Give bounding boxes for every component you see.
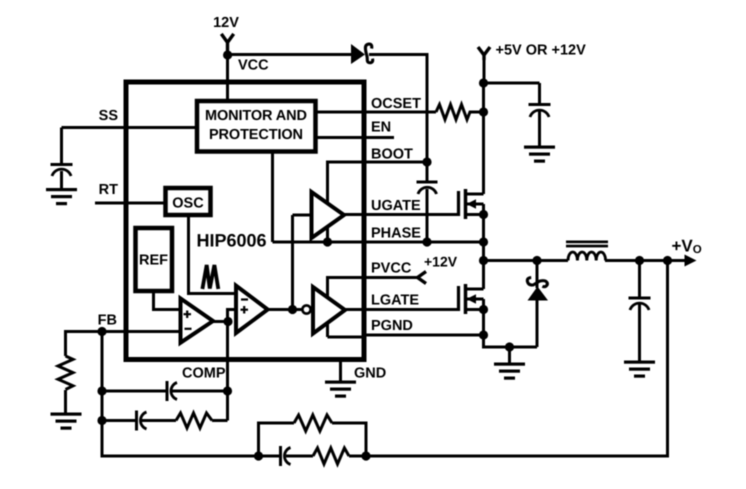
ground output cap xyxy=(624,361,655,378)
wire +5V input stem xyxy=(483,55,486,83)
wire feedback bottom rail left xyxy=(259,455,282,458)
wire 12V node to diode anode xyxy=(227,53,352,56)
transistor Q1 upper MOSFET xyxy=(459,189,484,219)
wire FB to bias resistor xyxy=(64,332,67,357)
transistor Q2 lower MOSFET xyxy=(459,284,484,314)
resistor feedback parallel xyxy=(294,415,332,431)
sawtooth oscillator waveform icon xyxy=(202,265,218,289)
resistor ROCSET xyxy=(436,105,481,120)
svg-text:RT: RT xyxy=(99,182,118,198)
wire FB node vertical xyxy=(101,332,104,457)
wire output feedback drop xyxy=(366,261,668,457)
wire SS pin xyxy=(62,126,198,129)
wire bootstrap cap to PHASE wire xyxy=(426,189,429,242)
capacitor compensation C2 xyxy=(135,411,147,431)
wire LGATE pin to lower FET gate xyxy=(344,308,459,311)
wire upper FET source to switch rail xyxy=(482,215,485,290)
node error amp output xyxy=(223,317,232,326)
svg-text:COMP: COMP xyxy=(182,366,226,382)
wire PVCC to lower driver supply xyxy=(328,278,365,338)
wire bias resistor to ground xyxy=(64,390,67,414)
capacitor output xyxy=(629,297,651,311)
IC U1 HIP6006 outline xyxy=(126,82,364,360)
node switch rail xyxy=(479,256,488,265)
wire decoupling cap to ground xyxy=(538,111,541,147)
capacitor feedback series xyxy=(279,446,291,466)
wire driver logic node vertical xyxy=(291,215,294,310)
node +5V junction xyxy=(479,78,488,87)
wire VCC internal to monitor box xyxy=(226,82,229,101)
svg-text:PROTECTION: PROTECTION xyxy=(209,127,303,143)
arrow output Vo xyxy=(685,255,697,267)
wire PHASE pin to switch node xyxy=(273,241,484,244)
wire feedback parallel branch right xyxy=(332,423,366,456)
svg-text:+12V: +12V xyxy=(424,254,458,270)
node ground rail xyxy=(505,342,514,351)
wire UGATE pin to upper FET gate xyxy=(344,213,459,216)
node 12V junction xyxy=(223,50,232,59)
svg-text:PVCC: PVCC xyxy=(371,261,412,277)
node PWM output xyxy=(288,305,297,314)
wire +5V node down to upper FET drain xyxy=(482,83,485,194)
node FB xyxy=(97,327,106,336)
wire PGND pin to lower FET source xyxy=(367,334,484,337)
svg-text:MONITOR AND: MONITOR AND xyxy=(205,108,307,124)
wire monitor box down to phase sense xyxy=(271,152,274,243)
capacitor SS softstart xyxy=(51,163,73,176)
op-amp upper gate driver xyxy=(312,192,345,238)
wire BOOT to upper driver supply xyxy=(328,162,365,242)
wire VCC 12V node to IC top xyxy=(226,55,229,101)
node feedback network left xyxy=(254,451,263,460)
ground GND pin stem xyxy=(339,360,342,383)
capacitor bootstrap xyxy=(417,181,438,195)
ground GND pin symbol xyxy=(325,381,356,398)
inductor L output xyxy=(566,241,608,261)
op-amp lower gate driver xyxy=(313,287,345,334)
svg-text:PGND: PGND xyxy=(371,318,413,334)
wire compensation RC cap to resistor xyxy=(141,419,176,422)
ground +5V cap xyxy=(524,146,555,163)
wire bottom rail to FB divider xyxy=(102,332,259,457)
resistor compensation RC xyxy=(176,413,212,428)
svg-text:VCC: VCC xyxy=(238,58,269,74)
svg-text:GND: GND xyxy=(354,366,386,382)
wire inductor to output arrow xyxy=(605,259,687,262)
node output cap tap xyxy=(635,256,644,265)
wire EN pin stub xyxy=(316,136,395,139)
svg-text:EN: EN xyxy=(371,120,391,136)
svg-text:HIP6006: HIP6006 xyxy=(197,231,267,251)
box OSC xyxy=(166,188,211,215)
wire lower FET source down to ground rail xyxy=(484,310,538,348)
wire PVCC pin to +12V connector xyxy=(367,276,419,279)
wire OSC ramp to comparator xyxy=(189,215,237,294)
node driver phase return xyxy=(323,237,332,246)
wire FB pin to error amp xyxy=(64,330,181,333)
svg-text:12V: 12V xyxy=(213,15,239,31)
box REF xyxy=(136,228,173,291)
ground power stage xyxy=(494,363,525,380)
node compensation branch 1 right xyxy=(223,386,232,395)
wire comparator output to node xyxy=(268,308,303,311)
node BOOT junction xyxy=(422,157,431,166)
svg-text:+5V OR +12V: +5V OR +12V xyxy=(496,43,587,59)
wire compensation RC branch xyxy=(102,419,136,422)
resistor feedback series xyxy=(313,448,349,464)
wire decoupling cap stem xyxy=(538,83,541,105)
wire ground stub on rail xyxy=(508,347,511,363)
wire +5V node to decoupling cap xyxy=(484,82,540,85)
wire RT pin stub xyxy=(95,202,166,205)
svg-text:UGATE: UGATE xyxy=(371,198,421,214)
node lower FET source xyxy=(479,305,488,314)
inverter bubble lower driver xyxy=(302,305,310,313)
diode D2 schottky freewheeling xyxy=(527,278,548,301)
wire feedback parallel branch left xyxy=(259,423,295,456)
wire output cap to ground xyxy=(638,304,641,363)
ground SS cap xyxy=(46,188,77,205)
wire lower driver return to PGND pin xyxy=(328,336,365,339)
node bootstrap phase xyxy=(422,237,431,246)
wire feedback series resistor to node xyxy=(349,455,366,458)
op-amp error amplifier xyxy=(181,299,214,343)
wire schottky anode to ground rail xyxy=(536,299,539,347)
svg-text:FB: FB xyxy=(98,313,117,329)
wire SS cap to ground xyxy=(60,171,63,190)
node feedback network right xyxy=(361,451,370,460)
node feedback tap xyxy=(663,256,672,265)
svg-text:REF: REF xyxy=(139,253,168,269)
ground FB bias resistor xyxy=(51,413,82,430)
wire diode cathode to BOOT corner xyxy=(369,55,427,182)
wire error amp output to comparator xyxy=(213,310,236,322)
svg-text:BOOT: BOOT xyxy=(371,147,413,163)
op-amp PWM comparator xyxy=(236,286,268,333)
wire switch rail to inductor xyxy=(484,259,569,262)
wire COMP pin vertical xyxy=(226,322,229,421)
diode D1 schottky VCC to BOOT xyxy=(351,44,373,64)
node upper FET source xyxy=(479,210,488,219)
connector +5V input xyxy=(478,47,490,60)
svg-text:OCSET: OCSET xyxy=(371,96,421,112)
node phase pin xyxy=(479,237,488,246)
resistor FB to ground xyxy=(58,356,73,390)
node compensation branch 2 left xyxy=(97,416,106,425)
svg-text:OSC: OSC xyxy=(172,196,204,212)
wire REF to error amp noninverting input xyxy=(154,291,181,310)
wire feedback series cap to resistor xyxy=(286,455,313,458)
wire schottky diode branch xyxy=(536,261,539,289)
wire BOOT pin to bootstrap node xyxy=(364,161,427,164)
node compensation branch 1 left xyxy=(97,386,106,395)
node OCSET junction xyxy=(479,107,488,116)
wire compensation cap to COMP node xyxy=(171,390,228,393)
wire output cap stem xyxy=(638,261,641,299)
capacitor compensation C1 xyxy=(166,381,178,401)
capacitor +5V decoupling xyxy=(529,103,551,117)
svg-text:SS: SS xyxy=(99,108,119,124)
node PGND xyxy=(479,330,488,339)
wire compensation cap branch xyxy=(102,390,166,393)
wire compensation RC to COMP node xyxy=(212,419,228,422)
wire OCSET pin to resistor xyxy=(316,111,437,114)
svg-text:PHASE: PHASE xyxy=(371,226,421,242)
wire node to upper driver input xyxy=(293,214,312,217)
connector +12V input xyxy=(418,272,427,284)
connector 12V input xyxy=(221,34,233,55)
box MONITOR AND PROTECTION xyxy=(197,101,316,152)
svg-text:LGATE: LGATE xyxy=(371,293,419,309)
node schottky tap xyxy=(532,256,541,265)
wire SS cap stem xyxy=(60,128,63,167)
